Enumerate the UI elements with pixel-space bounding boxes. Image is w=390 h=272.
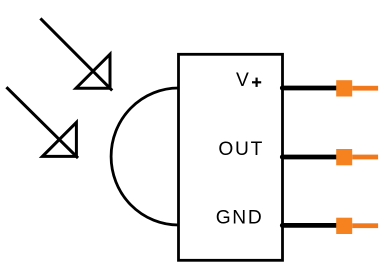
light arrow 2 shaft xyxy=(6,87,78,158)
connector pad GND xyxy=(336,218,352,234)
light arrow 1 shaft xyxy=(40,18,112,90)
connector lead V+ xyxy=(352,86,378,91)
dome lens xyxy=(111,88,178,225)
svg-text:OUT: OUT xyxy=(218,139,264,160)
wire GND xyxy=(282,223,340,228)
connector lead GND xyxy=(352,223,378,228)
sensor body U1 xyxy=(179,54,283,260)
light arrow 1 head xyxy=(76,54,110,88)
connector lead OUT xyxy=(352,155,378,160)
svg-text:GND: GND xyxy=(216,208,264,229)
connector pad OUT xyxy=(336,149,352,165)
light arrow 2 head xyxy=(42,122,76,156)
connector pad V+ xyxy=(336,80,352,96)
wire V+ xyxy=(282,86,340,91)
svg-text:V: V xyxy=(236,70,251,91)
wire OUT xyxy=(282,155,340,160)
